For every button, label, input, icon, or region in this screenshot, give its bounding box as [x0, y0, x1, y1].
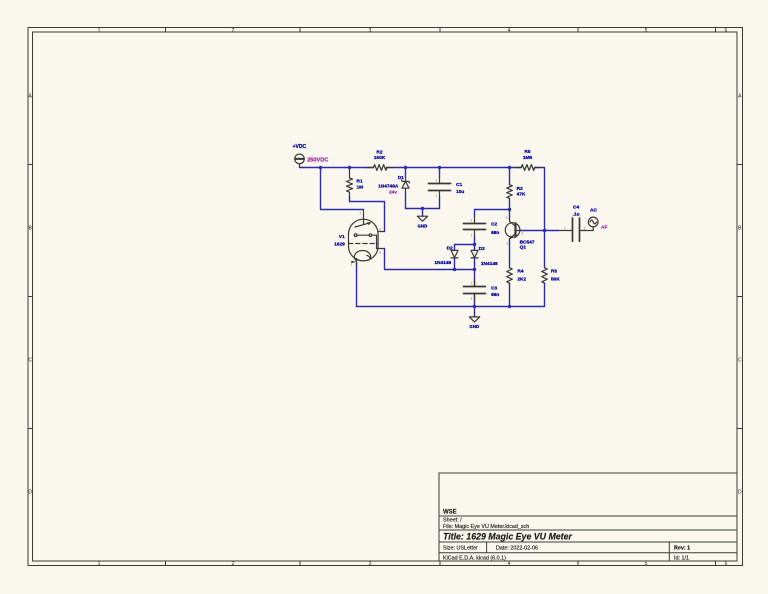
svg-text:1: 1 [98, 561, 101, 567]
svg-text:C4: C4 [573, 204, 579, 210]
svg-text:Title: 1629 Magic Eye VU Meter: Title: 1629 Magic Eye VU Meter [443, 532, 572, 542]
svg-text:Sheet: /: Sheet: / [443, 518, 462, 524]
capacitor C3 [464, 280, 486, 301]
svg-text:2: 2 [522, 232, 524, 236]
svg-text:2K2: 2K2 [517, 276, 526, 282]
svg-text:2: 2 [232, 28, 235, 34]
diode D2 [451, 250, 458, 258]
grid pin right upper [378, 231, 384, 233]
wire: tube cathode down to bottom rail [356, 263, 358, 307]
svg-text:C1: C1 [456, 182, 462, 188]
svg-text:1: 1 [471, 219, 473, 223]
svg-text:2: 2 [471, 297, 473, 301]
AC source port [586, 217, 599, 230]
resistor R4 [507, 268, 513, 283]
ground GND2 [469, 317, 479, 322]
svg-text:68n: 68n [491, 230, 499, 236]
svg-text:10u: 10u [456, 189, 464, 195]
svg-text:Id: 1/1: Id: 1/1 [674, 556, 689, 562]
svg-text:Q1: Q1 [520, 245, 527, 251]
svg-text:1629: 1629 [334, 241, 345, 247]
svg-text:2: 2 [436, 194, 438, 198]
svg-text:WSE: WSE [443, 510, 457, 516]
svg-text:3: 3 [379, 251, 381, 255]
wire: branch to D2 top [455, 244, 475, 246]
wire: C1 bottom stub [439, 198, 441, 209]
svg-text:1N4148: 1N4148 [434, 260, 451, 266]
plate pin [363, 210, 365, 224]
resistor R3 [507, 185, 513, 199]
wire: D2 bottom stub [454, 258, 456, 269]
svg-text:3: 3 [369, 561, 372, 567]
svg-text:56K: 56K [551, 276, 560, 282]
wire: R3 top pin to rail [509, 168, 511, 185]
svg-text:C: C [28, 358, 32, 364]
svg-text:2: 2 [471, 233, 473, 237]
svg-text:1: 1 [351, 263, 353, 267]
svg-text:1: 1 [506, 216, 508, 220]
wire: collector node left to C2 top [475, 210, 510, 217]
svg-text:R5: R5 [524, 149, 530, 155]
svg-text:C3: C3 [491, 285, 497, 291]
svg-text:D2: D2 [447, 245, 453, 251]
wire: D2 top stub [454, 245, 456, 251]
svg-text:1M: 1M [357, 184, 364, 190]
wire: R4 bottom to rail [509, 283, 511, 306]
svg-text:BC547: BC547 [520, 239, 535, 245]
svg-text:R3: R3 [517, 186, 523, 192]
svg-text:D1: D1 [398, 175, 404, 181]
wire: R1 bottom to tube grid pin [350, 196, 385, 231]
wire: D3 bottom to C3 top [474, 258, 476, 286]
wire: bottom rail [357, 283, 545, 306]
ray electrode vertical [376, 235, 378, 248]
cathode arc [354, 251, 370, 261]
wire: top rail middle segment [387, 167, 522, 169]
resistor R6 [542, 268, 548, 283]
svg-text:Rev: 1: Rev: 1 [674, 546, 690, 552]
svg-text:2: 2 [360, 212, 362, 216]
svg-text:1: 1 [471, 282, 473, 286]
wire: D1 bottom to GND wire and C1 bottom [406, 192, 440, 209]
svg-text:R4: R4 [517, 269, 523, 275]
wire: R3 bottom to collector node [509, 198, 511, 219]
tube V1 1629 [349, 210, 385, 266]
dashed control grid [349, 243, 378, 245]
cathode pin [356, 259, 358, 266]
svg-text:AC: AC [590, 207, 597, 213]
svg-text:R1: R1 [357, 179, 363, 185]
wire: GND1 stem [422, 209, 424, 217]
power symbol +VDC [295, 154, 305, 167]
svg-text:68n: 68n [491, 292, 499, 298]
wire: emitter down to R4 [509, 240, 511, 268]
svg-text:1M5: 1M5 [523, 155, 533, 161]
svg-text:GND: GND [469, 324, 479, 329]
capacitor C1 [429, 177, 451, 198]
svg-text:1: 1 [564, 226, 566, 230]
svg-text:C: C [738, 358, 742, 364]
ray pin right lower [377, 248, 385, 250]
capacitor C2 [464, 217, 486, 237]
svg-text:150K: 150K [374, 155, 386, 161]
title block [439, 473, 737, 561]
zener diode D1 [401, 178, 409, 193]
svg-text:4: 4 [508, 561, 511, 567]
resistor R1 [347, 168, 353, 197]
svg-text:KiCad E.D.A. kicad (6.0.1): KiCad E.D.A. kicad (6.0.1) [443, 556, 506, 562]
svg-text:Date: 2022-02-06: Date: 2022-02-06 [496, 546, 538, 552]
svg-text:R6: R6 [551, 269, 557, 275]
wire: top +VDC rail left segment [300, 167, 374, 169]
junction dots [319, 166, 546, 308]
svg-text:250VDC: 250VDC [307, 157, 328, 163]
svg-text:V1: V1 [339, 234, 345, 240]
wire: C2 bottom down to D3 top [474, 237, 476, 251]
resistor R2 [367, 165, 394, 171]
svg-text:Size: USLetter: Size: USLetter [443, 546, 478, 552]
wire: D1 top stub [405, 168, 407, 178]
svg-text:D: D [28, 490, 32, 496]
svg-text:C2: C2 [491, 222, 497, 228]
svg-text:2: 2 [584, 226, 586, 230]
svg-text:D3: D3 [479, 246, 485, 252]
svg-text:File: Magic Eye VU Meter.kicad: File: Magic Eye VU Meter.kicad_sch [443, 524, 529, 530]
title block text [443, 510, 690, 562]
svg-text:3: 3 [506, 242, 508, 246]
svg-text:47K: 47K [517, 192, 526, 198]
resistor R5 [515, 165, 542, 171]
ground GND1 [417, 216, 427, 221]
grid wire with end dots [354, 234, 357, 237]
svg-text:3: 3 [369, 28, 372, 34]
svg-text:D: D [738, 490, 742, 496]
svg-text:5: 5 [645, 28, 648, 34]
wire: base to C4 [521, 230, 559, 232]
wire: GND2 stem [474, 307, 476, 317]
diode D3 [471, 250, 478, 258]
svg-text:1: 1 [436, 179, 438, 183]
svg-text:4: 4 [508, 28, 511, 34]
svg-text:.1u: .1u [573, 211, 580, 217]
svg-text:2: 2 [232, 561, 235, 567]
wire: C3 bottom to bottom rail [474, 294, 476, 307]
svg-text:1: 1 [98, 28, 101, 34]
svg-text:1N4148: 1N4148 [481, 261, 498, 267]
wire: top rail right corner down to R6 [535, 168, 545, 268]
svg-text:GND: GND [418, 223, 428, 228]
svg-text:24v: 24v [389, 190, 397, 196]
svg-text:5: 5 [645, 561, 648, 567]
svg-text:4: 4 [379, 228, 381, 232]
transistor Q1 BC547 [505, 220, 520, 241]
svg-text:+VDC: +VDC [293, 144, 307, 150]
frame row letters [28, 94, 742, 496]
frame column numbers [98, 28, 728, 567]
svg-text:6: 6 [725, 28, 728, 34]
wire: tube ray pin down and right to D2/D3 bottoms [385, 249, 475, 270]
wire: C1 top pin to rail [439, 168, 441, 178]
svg-text:6: 6 [725, 561, 728, 567]
svg-text:R2: R2 [376, 149, 382, 155]
wire: rail branch down to tube plate [321, 168, 364, 210]
capacitor C4 [559, 218, 586, 241]
target/plate slanted line with arrow [355, 223, 370, 227]
svg-text:1N4748A: 1N4748A [378, 184, 399, 190]
svg-text:AF: AF [601, 224, 607, 230]
